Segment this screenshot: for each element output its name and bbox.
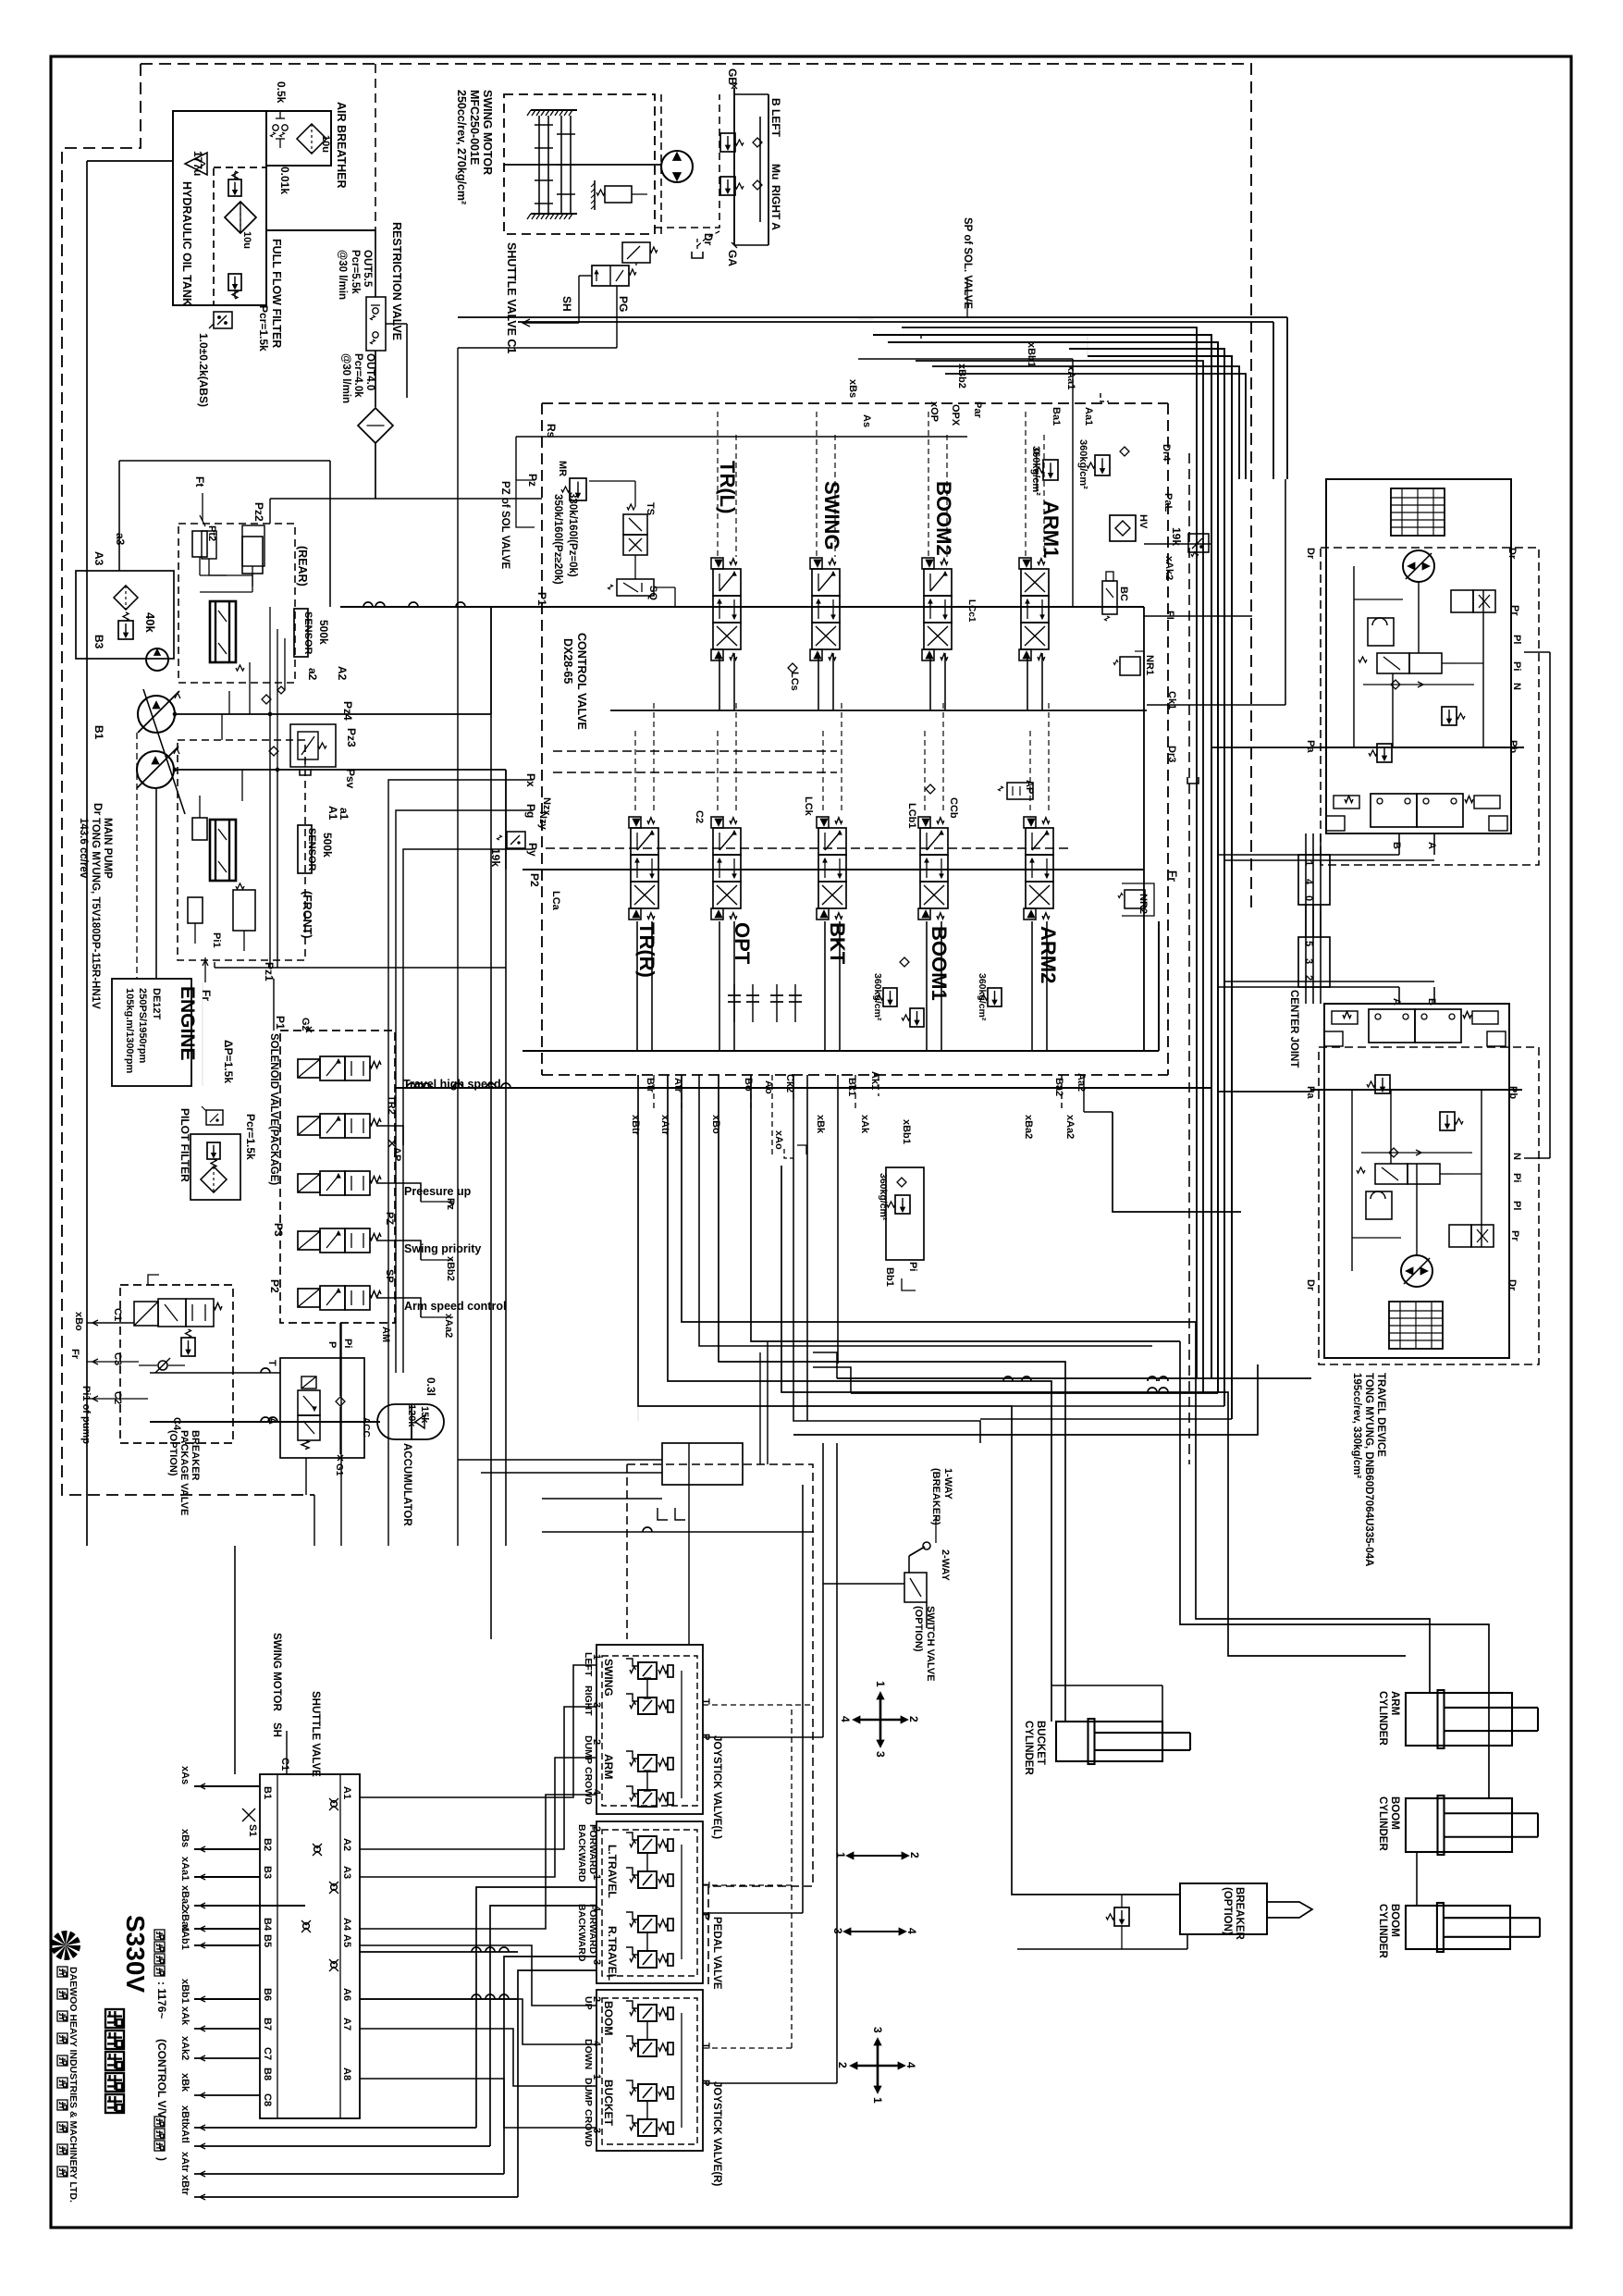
spools top row [711,558,723,569]
svg-text:DUMP: DUMP [583,1735,594,1764]
svg-text:3: 3 [1303,958,1314,964]
top nested corner buses [873,335,1211,1378]
svg-text:GB: GB [726,68,739,85]
svg-text:N: N [1511,1153,1522,1160]
Bb1 relief box [1394,0,1396,1]
svg-text:a2: a2 [306,668,319,681]
svg-text:2: 2 [907,1716,920,1722]
svg-text:SOLENOID VALVE(PACKAGE): SOLENOID VALVE(PACKAGE) [268,1033,279,1185]
svg-text:Bo: Bo [743,1078,754,1092]
svg-text:A2: A2 [336,666,349,681]
svg-text:Pz3: Pz3 [345,728,358,747]
svg-text:(OPTION): (OPTION) [913,1606,924,1652]
svg-text:xBs: xBs [179,1829,191,1847]
svg-text:SWING: SWING [820,481,843,550]
solenoid package dashed box [280,1031,395,1323]
P2 delivery line [175,769,506,771]
svg-text:Preesure up: Preesure up [404,1185,472,1198]
overload relief Bo1 [988,988,1002,1006]
svg-text:RIGHT A: RIGHT A [769,185,782,230]
40k relief [118,621,133,639]
svg-text:xAk2: xAk2 [179,2036,191,2060]
svg-text:143.6 cc/rev: 143.6 cc/rev [78,818,89,879]
travel high speed feed [395,1087,1211,1089]
svg-text:Ba1: Ba1 [1051,407,1062,426]
svg-text:4: 4 [1303,879,1314,885]
svg-text:xBb1: xBb1 [901,1119,912,1144]
dashed pilot verticals CV middle [634,731,636,814]
svg-text:BACKWARD: BACKWARD [576,1904,587,1962]
motor port links [1211,747,1313,748]
pump case dashed (front) [178,740,305,960]
NR1 [1120,657,1140,675]
svg-text:3: 3 [831,1928,844,1934]
joystick valve R [596,1990,703,2151]
pump top line a3 [118,461,120,571]
svg-text:1.0±0.2k(ABS): 1.0±0.2k(ABS) [197,333,210,407]
svg-text:HYDRAULIC OIL TANK: HYDRAULIC OIL TANK [180,181,193,306]
svg-text:Fr: Fr [1166,870,1179,882]
svg-text:A6: A6 [341,1988,352,2001]
bucket cylinder [1056,1722,1162,1761]
svg-text:Pcr=5.5k: Pcr=5.5k [350,250,361,294]
air breather checks [273,125,278,130]
pump case dashed (rear) [178,524,295,683]
AP cartridge [1007,783,1033,799]
shuttle valve c1 [592,265,629,286]
P1 main supply line [340,606,1144,608]
center joint [1298,855,1330,905]
svg-text:xBa2: xBa2 [179,1885,191,1909]
svg-text:C4: C4 [171,1417,182,1431]
svg-text:Pa: Pa [1305,1086,1316,1099]
svg-text:BOOM: BOOM [1389,1796,1400,1830]
xAo Ck2 verticals to joystick box [759,1352,761,1464]
svg-text:Pi: Pi [907,1262,918,1271]
svg-text:ΔP=1.5k: ΔP=1.5k [222,1040,235,1083]
svg-text:T: T [700,1698,711,1705]
svg-text:1: 1 [874,1681,887,1687]
svg-text:N: N [1511,683,1522,690]
pump to engine shaft [155,788,157,979]
svg-text:250PS/1950rpm: 250PS/1950rpm [137,988,148,1064]
svg-text:4: 4 [839,1716,852,1722]
svg-text:PG: PG [617,296,630,312]
svg-text:10u: 10u [320,135,331,153]
TS valve [623,514,647,535]
svg-text:@30 l/min: @30 l/min [340,353,351,403]
bottom spool tank stubs [636,921,638,1051]
svg-text:Dr: Dr [1506,548,1518,560]
svg-text:B: B [1391,842,1402,849]
Px Pg Py feeders [388,780,533,1546]
overload relief Bk [883,988,897,1006]
svg-text:xAb1: xAb1 [179,1925,191,1950]
svg-text:177u: 177u [191,151,204,176]
svg-text:C8: C8 [262,2093,273,2106]
pilot filter [191,1134,240,1200]
svg-text:19k: 19k [489,848,502,867]
svg-text:AM: AM [380,1327,391,1342]
svg-text:CROWD: CROWD [583,1767,594,1805]
svg-text:4: 4 [904,2062,917,2068]
svg-text:B3: B3 [262,1866,273,1879]
svg-text:MR: MR [557,461,568,476]
extra nested corners to travel motor1 [932,366,1239,479]
tank suction line [87,160,173,162]
pilot return dashed boundary [627,1464,813,1886]
travel motor 2 dashed case [1319,1047,1539,1364]
svg-text:10u: 10u [241,231,252,249]
svg-text:B2: B2 [262,1838,273,1851]
PG pilot line down-left [458,347,617,349]
svg-text:JOYSTICK VALVE(R): JOYSTICK VALVE(R) [711,2081,722,2186]
svg-text:B8: B8 [262,2068,273,2080]
joystick valve L [596,1645,703,1814]
svg-text:xAa1: xAa1 [179,1857,191,1881]
breaker package valve dashed box [120,1285,233,1443]
svg-text:xBo: xBo [710,1115,721,1134]
package P down to acc line [340,1323,342,1546]
svg-text:SH: SH [271,1722,282,1737]
shuttle balls [331,1801,338,1808]
svg-text:R.TRAVEL: R.TRAVEL [606,1926,619,1981]
svg-text:P2: P2 [268,1279,281,1293]
tank symbol 177u [185,153,207,175]
svg-text:A8: A8 [341,2068,352,2080]
svg-text:1-WAY: 1-WAY [942,1468,953,1500]
svg-text:L.TRAVEL: L.TRAVEL [606,1845,619,1898]
svg-text:ARM: ARM [1389,1691,1400,1715]
svg-text:360kg/cm²: 360kg/cm² [977,973,988,1021]
Ba2 Aa2 drop lines [1061,1075,1063,1112]
sensor front [298,825,312,873]
dashed corner mark [921,334,929,342]
svg-text:A2: A2 [341,1838,352,1851]
svg-text:350k/160l(Pz≥20k): 350k/160l(Pz≥20k) [552,494,563,585]
svg-text:xBtl: xBtl [179,2105,191,2125]
svg-text:Pl: Pl [1511,1201,1522,1210]
svg-text:C7: C7 [262,2047,273,2060]
svg-text:BC: BC [1118,586,1129,601]
svg-text:LCk: LCk [803,796,814,817]
svg-text:B7: B7 [262,2018,273,2031]
svg-text:Mu: Mu [769,164,782,179]
svg-text:a3: a3 [114,533,127,546]
long drop wires with elbows to right [682,1075,1196,1322]
svg-text:Ft: Ft [193,476,206,487]
svg-text:PZ: PZ [384,1212,395,1225]
svg-text:SENSOR: SENSOR [306,828,317,871]
svg-text:360kg/cm²: 360kg/cm² [1030,446,1041,496]
svg-text:xAa2: xAa2 [1064,1115,1076,1139]
svg-text:SWING: SWING [602,1659,615,1697]
cutoff to line [305,1458,307,1495]
svg-text:GA: GA [726,250,739,266]
NR2 [1125,890,1145,908]
svg-text:C2: C2 [112,1391,123,1404]
svg-text:(REAR): (REAR) [296,546,309,586]
svg-text:xAa1: xAa1 [1065,365,1076,389]
svg-text:B4: B4 [262,1918,273,1932]
shuttle block outline [260,1774,360,2118]
svg-text:Pcr=1.5k: Pcr=1.5k [257,305,270,352]
regulator rear [210,601,236,662]
svg-text:C2: C2 [694,810,705,823]
svg-text:105kg.m/1300rpm: 105kg.m/1300rpm [124,988,135,1074]
svg-text:CONTROL VALVE: CONTROL VALVE [575,633,588,730]
svg-text:FULL FLOW FILTER: FULL FLOW FILTER [270,239,283,348]
svg-text:DOWN: DOWN [583,2039,594,2069]
svg-text:JOYSTICK VALVE(L): JOYSTICK VALVE(L) [711,1735,722,1839]
travel motor 1 dashed case [1321,548,1539,865]
svg-text:xBk: xBk [815,1115,826,1134]
cutoff P wire [339,1323,341,1396]
HV check [1110,515,1136,541]
Pz1 Pi1 lines [215,967,506,969]
svg-text:xBa2: xBa2 [1023,1115,1034,1139]
svg-text:): ) [155,2157,168,2161]
svg-text:a1: a1 [338,808,350,821]
boom cylinder 2 [1406,1906,1510,1949]
svg-text:ACC: ACC [361,1417,371,1438]
Rs rail [516,436,967,438]
svg-text:xAo: xAo [773,1130,784,1150]
svg-text:AP: AP [1024,780,1035,794]
svg-text:330k/160l(Pz=0k): 330k/160l(Pz=0k) [567,492,578,577]
19k switch [1188,534,1209,552]
svg-text:HV: HV [1137,514,1149,529]
bottom horizontal bundle extra [793,1364,1258,1435]
breaker solenoid valve [134,1302,158,1326]
svg-text:TR2: TR2 [386,1095,397,1115]
svg-text:CCb: CCb [948,797,959,819]
svg-text:Travel high speed: Travel high speed [403,1078,501,1091]
drop lines dashed [653,1075,655,1110]
svg-text:SHUTTLE VALVE: SHUTTLE VALVE [310,1691,321,1777]
pz2 line [270,498,542,500]
pump suction/outline [76,571,174,659]
bus verticals to bundle joins [1211,1377,1218,1379]
pilot filter drain sym [206,1110,223,1125]
svg-text:: 1176~: : 1176~ [155,1981,168,2018]
svg-text:0.3l: 0.3l [424,1377,437,1396]
svg-text:MAIN PUMP: MAIN PUMP [102,818,113,879]
svg-text:ACCUMULATOR: ACCUMULATOR [401,1443,412,1526]
svg-text:3: 3 [874,1751,887,1758]
svg-text:T: T [266,1360,277,1366]
swing motor [661,151,693,182]
dashed pilot rail [546,847,1068,849]
svg-text:AP: AP [391,1147,402,1161]
service check symbols [733,984,735,1022]
switch valve [904,1573,927,1602]
svg-text:A: A [1391,998,1402,1006]
svg-text:A1: A1 [326,806,339,821]
parking brake [594,180,596,210]
svg-text:5: 5 [1303,941,1314,946]
svg-text:BREAKER: BREAKER [1234,1887,1245,1941]
riser bridges [360,1951,518,1953]
extra bus verticals [902,327,1197,1378]
travel pilot risers [476,1887,596,2128]
svg-text:xAk: xAk [859,1115,870,1134]
svg-text:Dr: Dr [1305,1279,1316,1291]
svg-text:UP: UP [583,1996,594,2010]
svg-text:xAk: xAk [179,2006,191,2026]
svg-text:LEFT: LEFT [583,1652,594,1677]
svg-text:Pr: Pr [1509,1230,1520,1241]
svg-text:Pz2: Pz2 [252,502,265,522]
svg-text:360kg/cm²: 360kg/cm² [872,973,883,1021]
svg-text:Pz: Pz [445,1198,456,1210]
svg-text:P: P [700,1913,711,1920]
svg-text:CYLINDER: CYLINDER [1377,1904,1388,1958]
svg-text:BACKWARD: BACKWARD [576,1824,587,1882]
svg-text:Ck1: Ck1 [1166,691,1177,710]
svg-text:xBo: xBo [73,1312,84,1331]
air breather [266,111,331,166]
svg-text:DX28-65: DX28-65 [561,638,574,684]
cylinder link lines [1416,1852,1418,1906]
svg-text:As: As [861,414,872,427]
svg-text:B1: B1 [92,725,105,740]
svg-text:P1: P1 [274,1016,287,1030]
SQ valve [617,579,654,596]
svg-text:Pz4: Pz4 [341,701,354,721]
psv proportional valve [290,724,336,767]
svg-text:(OPTION): (OPTION) [1222,1887,1233,1935]
svg-text:BOOM: BOOM [602,2001,615,2035]
travel motor 2 (lower) [1324,1004,1509,1358]
pt2 cylinders details [202,531,216,559]
svg-text:xBb2: xBb2 [956,364,967,389]
svg-text:LCb1: LCb1 [906,803,917,829]
svg-text:LCs: LCs [789,672,800,691]
lower port wires [194,2028,260,2030]
svg-text:xOP: xOP [928,401,940,422]
shuttle to joystick wires [360,1665,596,1797]
MR relief [570,478,586,500]
center joint to motor lines [1305,905,1307,937]
manifold feeders [458,1459,662,1461]
xBb1 pilot line [858,358,1073,360]
switch valve wires [822,1443,824,1584]
svg-text:Pb: Pb [1507,740,1518,753]
svg-text:Dr: Dr [1506,1279,1518,1291]
regulator front [210,820,236,881]
accumulator A line [150,1421,380,1423]
svg-text:PaL: PaL [1162,493,1174,512]
feeder lines into manifold [542,1498,662,1500]
svg-text:A: A [1426,842,1437,849]
svg-text:LCc1: LCc1 [966,599,977,623]
svg-text:2: 2 [908,1852,921,1858]
svg-text:2: 2 [1303,975,1314,981]
svg-text:NR1: NR1 [1144,655,1155,675]
svg-text:195cc/rev, 330kg/cm²: 195cc/rev, 330kg/cm² [1351,1373,1362,1478]
breaker check valve [158,1361,167,1370]
svg-text:TS: TS [645,502,656,515]
front pump vertical wires [269,714,271,968]
CV inner right boundary [1143,607,1145,1051]
svg-text:xBtr: xBtr [630,1115,641,1136]
boom cylinder 1 [1406,1798,1512,1852]
A3 filter diamond [114,586,138,610]
svg-text:360kg/cm²: 360kg/cm² [878,1173,889,1221]
svg-text:1: 1 [834,1852,847,1858]
svg-text:B1: B1 [262,1786,273,1799]
svg-text:Arm speed control: Arm speed control [404,1300,506,1313]
svg-text:Swing priority: Swing priority [404,1242,481,1255]
svg-text:SWING MOTOR: SWING MOTOR [481,90,494,175]
left wires to shuttle block [194,1785,260,1787]
overload relief Ab [910,1008,924,1027]
svg-text:ARM1: ARM1 [1039,500,1063,558]
svg-text:Pt2: Pt2 [206,525,217,541]
svg-text:BOOM: BOOM [1389,1904,1400,1937]
svg-text:ARM: ARM [602,1754,615,1779]
svg-text:CENTER JOINT: CENTER JOINT [1288,990,1299,1068]
svg-text:xBs: xBs [847,379,858,398]
svg-text:PACKAGE VALVE: PACKAGE VALVE [178,1430,190,1515]
svg-text:xAtr: xAtr [659,1115,670,1136]
svg-text:OPX: OPX [950,404,961,426]
19k relief bottom-left of CV [507,832,525,848]
svg-text:Pi: Pi [342,1339,353,1348]
main pump 1 [138,696,175,733]
svg-text:MFC250-001E: MFC250-001E [468,90,481,165]
svg-text:LCa: LCa [550,891,561,911]
travel motor 1 (upper) [1326,479,1511,833]
main pump 2 [137,751,174,788]
shuttle valve c1 pilot [622,242,650,263]
svg-text:Pl: Pl [1511,635,1522,644]
svg-text:xBb1: xBb1 [1026,342,1037,367]
CV right side stubs to bus [1144,543,1211,545]
svg-text:A1: A1 [341,1786,352,1799]
svg-text:Fr: Fr [200,990,213,1001]
svg-text:BKT: BKT [826,922,849,965]
breaker relief [1114,1907,1129,1926]
svg-text:NR2: NR2 [1137,894,1149,914]
svg-text:CYLINDER: CYLINDER [1377,1691,1388,1746]
bridges on bundle [1003,1376,1013,1381]
right mid vertical bus extra [1087,335,1088,356]
svg-text:Aa2: Aa2 [1076,1073,1087,1092]
joystick T dashed link [703,1704,813,1706]
P2 main supply line [523,869,1144,870]
svg-text:FORWARD: FORWARD [587,1904,598,1954]
svg-text:xAk2: xAk2 [1163,556,1174,580]
svg-text:@30 l/min: @30 l/min [337,250,348,300]
arm cylinder [1406,1693,1512,1746]
svg-text:Dr: Dr [92,803,105,816]
svg-text:Pz1: Pz1 [263,962,276,981]
pump zone detail fillers [262,695,271,704]
svg-text:PZ of SOL VALVE: PZ of SOL VALVE [499,481,510,570]
svg-text:SH: SH [560,296,573,312]
svg-text:0: 0 [1303,895,1314,901]
svg-text:Pi1: Pi1 [211,932,222,948]
svg-text:xBk: xBk [179,2073,191,2092]
svg-text:DUMP: DUMP [583,2078,594,2106]
svg-text:DE12T: DE12T [151,988,162,1020]
svg-text:xBb1: xBb1 [179,1979,191,2004]
svg-text:G1: G1 [334,1463,344,1476]
svg-text:500k: 500k [317,620,330,645]
svg-text:CYLINDER: CYLINDER [1023,1721,1034,1775]
